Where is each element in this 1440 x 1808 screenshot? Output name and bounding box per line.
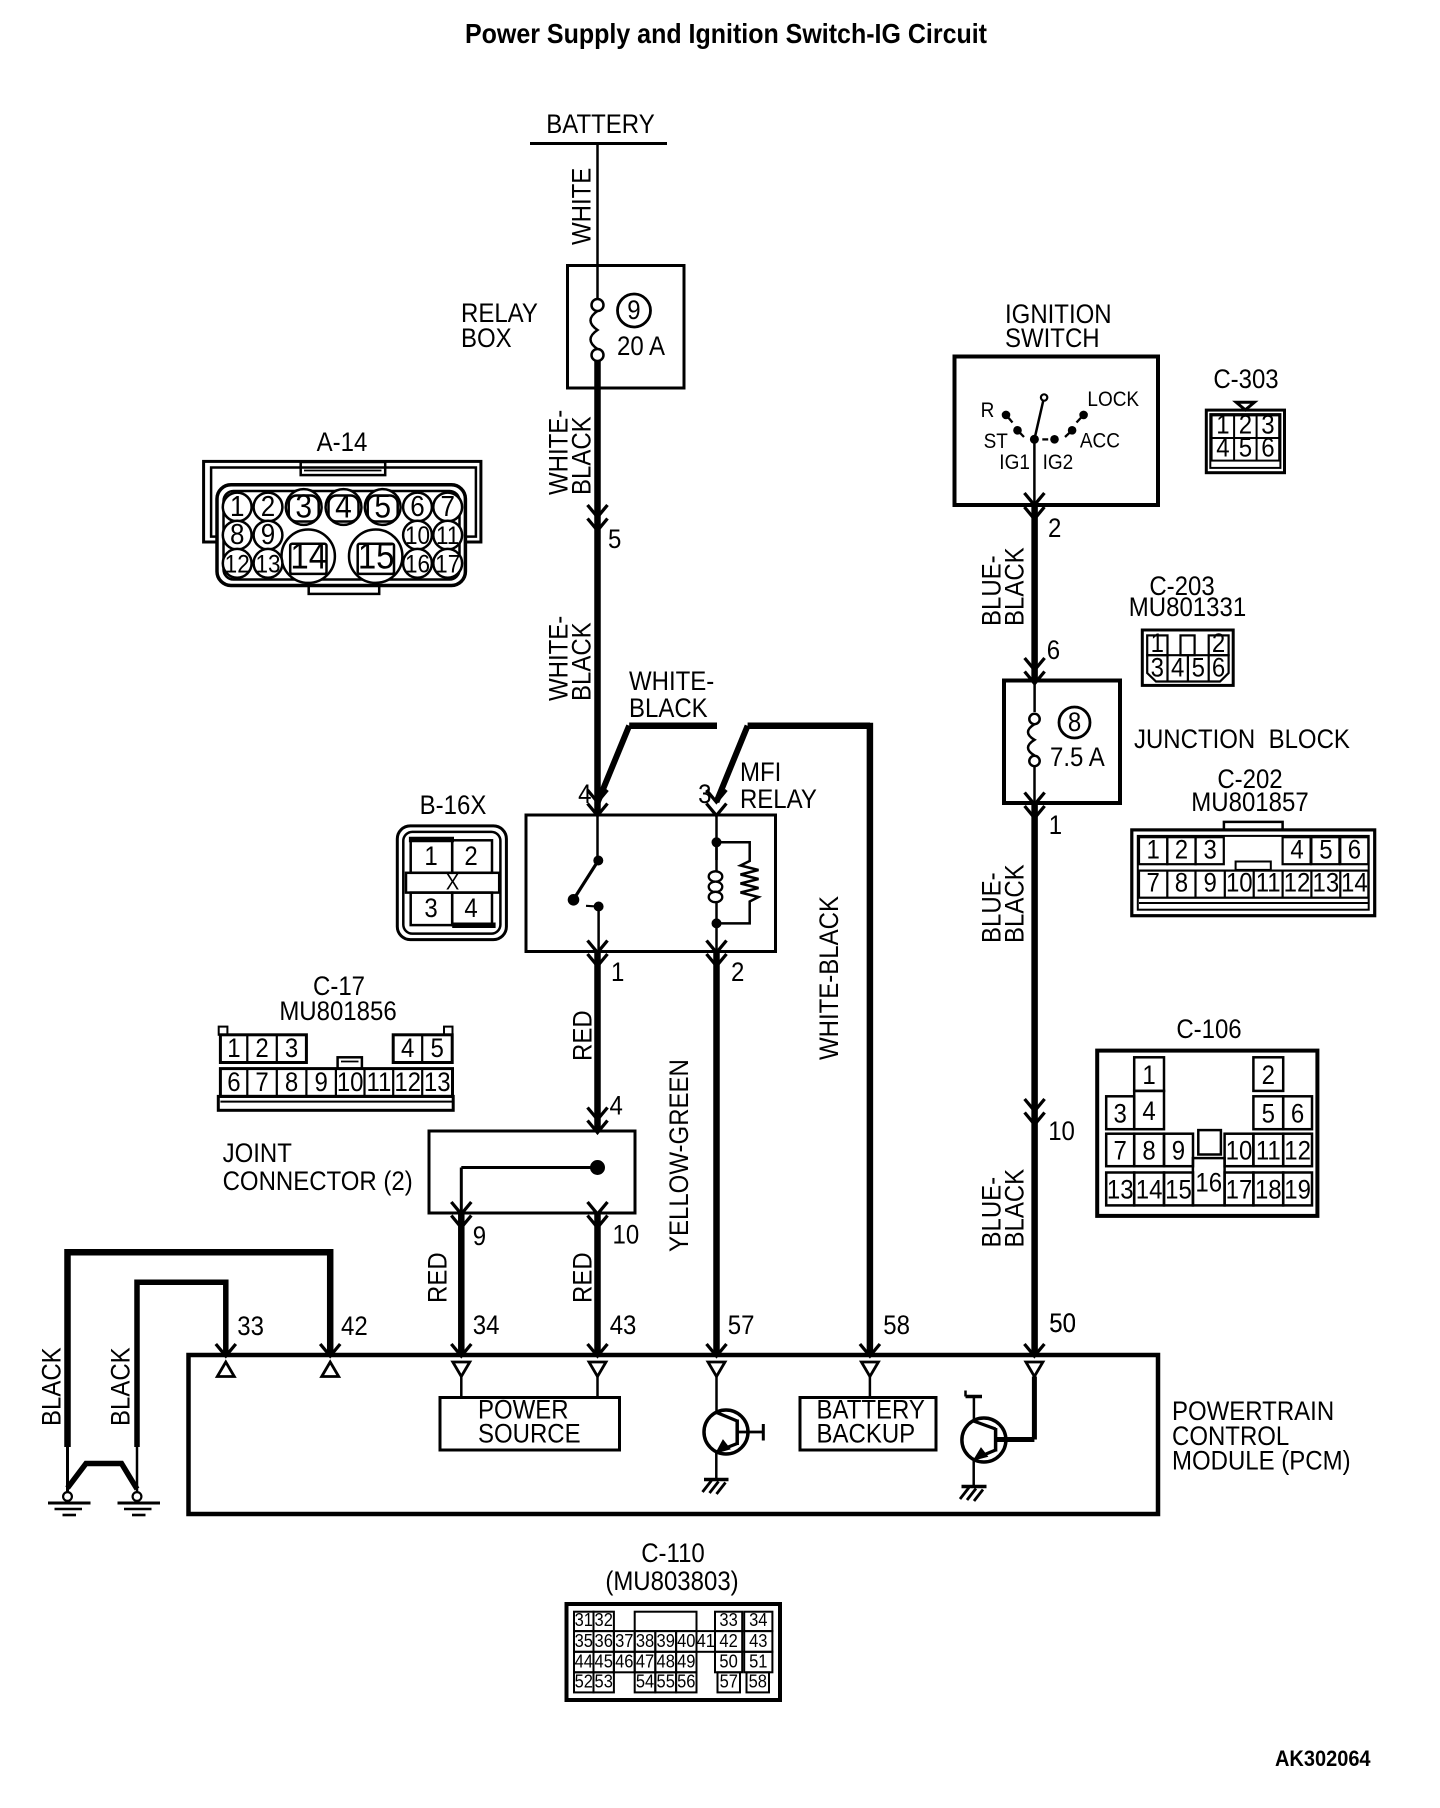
svg-text:11: 11 <box>1256 868 1281 898</box>
svg-text:MU801331: MU801331 <box>1129 593 1246 623</box>
svg-text:1: 1 <box>227 1034 240 1064</box>
svg-text:BLACK: BLACK <box>1000 864 1030 943</box>
svg-text:BLACK: BLACK <box>1000 547 1030 626</box>
svg-text:38: 38 <box>636 1630 654 1651</box>
svg-text:8: 8 <box>230 518 244 551</box>
svg-text:10: 10 <box>1226 1137 1253 1167</box>
svg-text:BATTERY: BATTERY <box>546 110 654 140</box>
svg-text:12: 12 <box>225 550 250 578</box>
svg-text:57: 57 <box>720 1671 738 1692</box>
svg-text:AK302064: AK302064 <box>1275 1747 1371 1771</box>
svg-text:12: 12 <box>1284 1137 1311 1167</box>
svg-text:48: 48 <box>657 1650 675 1671</box>
svg-text:IG2: IG2 <box>1043 451 1074 474</box>
svg-text:LOCK: LOCK <box>1087 388 1139 411</box>
svg-text:4: 4 <box>578 780 591 810</box>
svg-text:7: 7 <box>440 490 454 523</box>
svg-text:47: 47 <box>636 1650 654 1671</box>
svg-text:C-303: C-303 <box>1213 365 1278 395</box>
svg-text:6: 6 <box>410 490 424 523</box>
svg-text:9: 9 <box>261 518 275 551</box>
svg-text:14: 14 <box>290 536 327 577</box>
svg-text:IG1: IG1 <box>999 451 1030 474</box>
svg-text:R: R <box>981 399 995 422</box>
svg-text:3: 3 <box>1151 653 1164 683</box>
svg-text:4: 4 <box>464 894 477 924</box>
svg-text:4: 4 <box>1216 433 1229 463</box>
svg-text:B-16X: B-16X <box>420 791 487 821</box>
svg-text:14: 14 <box>1136 1176 1163 1206</box>
svg-text:12: 12 <box>394 1068 421 1098</box>
svg-text:9: 9 <box>627 296 640 326</box>
svg-text:ACC: ACC <box>1080 430 1120 453</box>
svg-text:32: 32 <box>595 1609 613 1630</box>
svg-text:(MU803803): (MU803803) <box>605 1567 738 1597</box>
svg-text:9: 9 <box>473 1222 486 1252</box>
svg-text:3: 3 <box>285 1034 298 1064</box>
svg-text:SWITCH: SWITCH <box>1005 324 1100 354</box>
svg-text:ST: ST <box>984 430 1008 453</box>
svg-text:36: 36 <box>595 1630 613 1651</box>
svg-text:10: 10 <box>1048 1117 1075 1147</box>
svg-text:BOX: BOX <box>461 324 512 354</box>
svg-text:BLACK: BLACK <box>567 622 597 701</box>
svg-text:42: 42 <box>719 1630 737 1651</box>
svg-text:53: 53 <box>595 1671 613 1692</box>
svg-text:15: 15 <box>1165 1176 1192 1206</box>
svg-text:1: 1 <box>1142 1061 1155 1091</box>
svg-text:BLACK: BLACK <box>106 1347 136 1426</box>
svg-text:6: 6 <box>227 1068 240 1098</box>
svg-text:10: 10 <box>612 1220 639 1250</box>
svg-text:X: X <box>446 871 459 895</box>
svg-text:5: 5 <box>374 487 391 525</box>
svg-text:14: 14 <box>1341 868 1368 898</box>
svg-text:YELLOW-GREEN: YELLOW-GREEN <box>665 1059 695 1252</box>
svg-text:5: 5 <box>1239 433 1252 463</box>
svg-text:13: 13 <box>1107 1176 1134 1206</box>
svg-text:8: 8 <box>1142 1137 1155 1167</box>
svg-text:6: 6 <box>1261 433 1274 463</box>
svg-text:41: 41 <box>697 1630 715 1651</box>
svg-text:MFI: MFI <box>740 758 781 788</box>
svg-text:40: 40 <box>677 1630 696 1651</box>
svg-text:39: 39 <box>657 1630 675 1651</box>
svg-text:JUNCTION BLOCK: JUNCTION BLOCK <box>1134 725 1350 755</box>
svg-text:17: 17 <box>435 550 460 578</box>
svg-text:13: 13 <box>255 550 280 578</box>
svg-text:Power Supply and Ignition Swit: Power Supply and Ignition Switch-IG Circ… <box>465 18 987 50</box>
svg-text:42: 42 <box>341 1312 368 1342</box>
svg-text:5: 5 <box>1262 1099 1275 1129</box>
svg-text:A-14: A-14 <box>317 428 368 458</box>
svg-text:34: 34 <box>749 1609 768 1630</box>
svg-text:6: 6 <box>1291 1099 1304 1129</box>
svg-text:WHITE-: WHITE- <box>629 667 714 697</box>
svg-text:56: 56 <box>677 1671 695 1692</box>
svg-text:9: 9 <box>315 1068 328 1098</box>
svg-text:1: 1 <box>611 958 624 988</box>
svg-text:RED: RED <box>568 1252 598 1303</box>
svg-text:4: 4 <box>610 1091 623 1121</box>
svg-text:3: 3 <box>698 780 711 810</box>
svg-text:4: 4 <box>335 487 352 525</box>
svg-text:50: 50 <box>1049 1309 1076 1339</box>
svg-text:MU801856: MU801856 <box>279 997 396 1027</box>
svg-text:7.5 A: 7.5 A <box>1050 743 1105 773</box>
svg-text:10: 10 <box>337 1068 364 1098</box>
svg-text:13: 13 <box>424 1068 451 1098</box>
svg-text:33: 33 <box>237 1312 264 1342</box>
svg-text:17: 17 <box>1226 1176 1253 1206</box>
svg-text:55: 55 <box>657 1671 675 1692</box>
svg-text:11: 11 <box>366 1068 391 1098</box>
svg-text:4: 4 <box>1290 835 1303 865</box>
svg-text:31: 31 <box>575 1609 593 1630</box>
svg-text:11: 11 <box>1256 1137 1281 1167</box>
svg-text:49: 49 <box>677 1650 695 1671</box>
svg-text:2: 2 <box>731 958 744 988</box>
svg-text:8: 8 <box>285 1068 298 1098</box>
svg-text:8: 8 <box>1175 868 1188 898</box>
svg-text:8: 8 <box>1068 708 1081 738</box>
svg-text:16: 16 <box>1195 1168 1222 1198</box>
svg-text:13: 13 <box>1313 868 1340 898</box>
svg-text:46: 46 <box>615 1650 633 1671</box>
svg-text:CONNECTOR (2): CONNECTOR (2) <box>223 1167 413 1197</box>
svg-text:16: 16 <box>405 550 430 578</box>
svg-text:C-106: C-106 <box>1176 1015 1241 1045</box>
svg-text:BLACK: BLACK <box>1000 1169 1030 1248</box>
svg-text:WHITE-BLACK: WHITE-BLACK <box>815 896 845 1060</box>
svg-text:1: 1 <box>1147 835 1160 865</box>
svg-text:1: 1 <box>1049 811 1062 841</box>
svg-text:52: 52 <box>575 1671 593 1692</box>
svg-text:5: 5 <box>431 1034 444 1064</box>
svg-text:34: 34 <box>473 1311 500 1341</box>
svg-text:RELAY: RELAY <box>740 785 817 815</box>
svg-text:50: 50 <box>719 1650 738 1671</box>
svg-text:4: 4 <box>401 1034 414 1064</box>
svg-text:15: 15 <box>358 536 395 577</box>
svg-text:2: 2 <box>1175 835 1188 865</box>
svg-text:BLACK: BLACK <box>629 694 708 724</box>
svg-text:5: 5 <box>608 525 621 555</box>
svg-text:7: 7 <box>1114 1137 1127 1167</box>
svg-text:11: 11 <box>436 522 459 550</box>
svg-text:54: 54 <box>636 1671 655 1692</box>
svg-text:2: 2 <box>1262 1061 1275 1091</box>
svg-text:58: 58 <box>883 1311 910 1341</box>
svg-text:10: 10 <box>405 522 430 550</box>
svg-text:MODULE (PCM): MODULE (PCM) <box>1172 1446 1351 1476</box>
svg-text:44: 44 <box>575 1650 594 1671</box>
svg-text:C-110: C-110 <box>641 1539 705 1569</box>
svg-text:WHITE: WHITE <box>567 168 597 245</box>
svg-text:6: 6 <box>1047 636 1060 666</box>
svg-text:RED: RED <box>568 1010 598 1061</box>
svg-text:SOURCE: SOURCE <box>478 1419 581 1449</box>
svg-text:5: 5 <box>1319 835 1332 865</box>
svg-text:43: 43 <box>610 1311 637 1341</box>
svg-text:5: 5 <box>1192 653 1205 683</box>
svg-text:9: 9 <box>1172 1137 1185 1167</box>
svg-text:12: 12 <box>1284 868 1311 898</box>
svg-text:10: 10 <box>1226 868 1253 898</box>
svg-text:58: 58 <box>749 1671 767 1692</box>
svg-text:2: 2 <box>1048 514 1061 544</box>
svg-text:35: 35 <box>575 1630 593 1651</box>
svg-text:4: 4 <box>1171 653 1184 683</box>
svg-text:3: 3 <box>1114 1099 1127 1129</box>
svg-text:2: 2 <box>255 1034 268 1064</box>
svg-text:45: 45 <box>595 1650 613 1671</box>
svg-text:37: 37 <box>615 1630 633 1651</box>
svg-text:3: 3 <box>424 894 437 924</box>
svg-text:BLACK: BLACK <box>37 1347 67 1426</box>
svg-text:33: 33 <box>719 1609 737 1630</box>
svg-text:3: 3 <box>295 487 312 525</box>
svg-text:20 A: 20 A <box>617 332 665 362</box>
svg-text:7: 7 <box>1147 868 1160 898</box>
svg-text:JOINT: JOINT <box>223 1139 292 1169</box>
svg-text:19: 19 <box>1284 1176 1311 1206</box>
svg-text:9: 9 <box>1204 868 1217 898</box>
svg-text:1: 1 <box>424 842 437 872</box>
svg-text:MU801857: MU801857 <box>1191 788 1308 818</box>
svg-text:6: 6 <box>1348 835 1361 865</box>
svg-text:51: 51 <box>749 1650 767 1671</box>
svg-text:2: 2 <box>464 842 477 872</box>
svg-text:43: 43 <box>749 1630 767 1651</box>
svg-text:57: 57 <box>728 1311 755 1341</box>
svg-text:BACKUP: BACKUP <box>817 1419 916 1449</box>
svg-text:6: 6 <box>1212 653 1225 683</box>
svg-text:4: 4 <box>1142 1097 1155 1127</box>
svg-text:3: 3 <box>1204 835 1217 865</box>
svg-text:BLACK: BLACK <box>567 416 597 495</box>
svg-text:18: 18 <box>1255 1176 1282 1206</box>
svg-text:7: 7 <box>255 1068 268 1098</box>
svg-text:RED: RED <box>423 1252 453 1303</box>
